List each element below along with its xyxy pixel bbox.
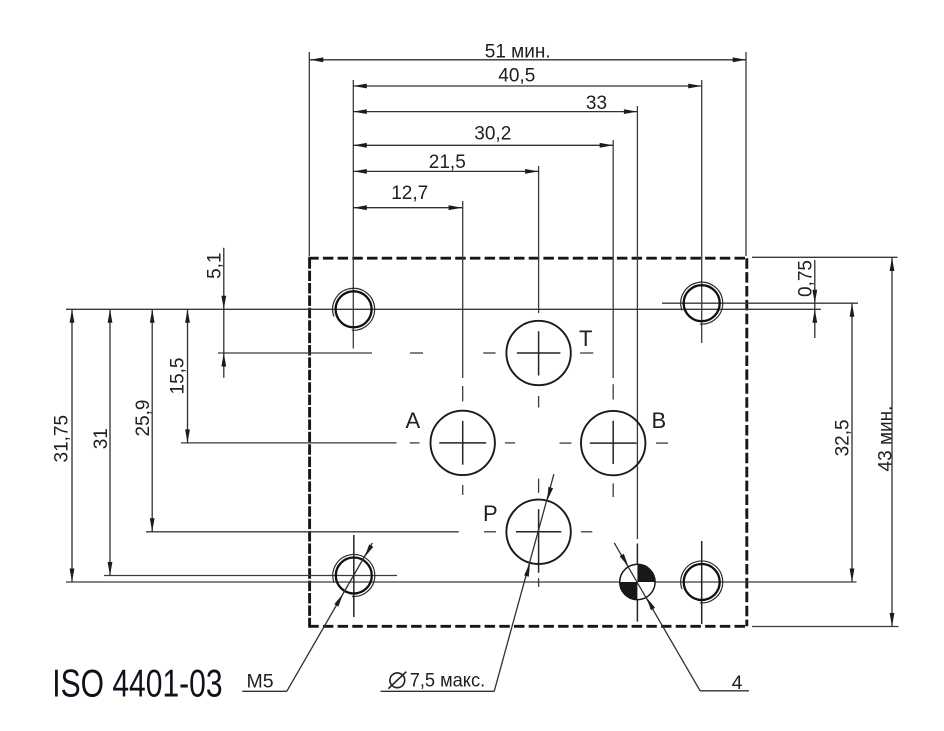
port T circle <box>506 321 570 385</box>
svg-text:43 мин.: 43 мин. <box>875 406 896 472</box>
svg-text:5,1: 5,1 <box>205 252 226 278</box>
T-P axis dash 2 <box>538 479 540 493</box>
extension line through T/P ports x=538.6 <box>538 166 540 313</box>
B axis dash below <box>612 483 614 497</box>
port A circle <box>431 411 495 475</box>
B axis dash above <box>612 384 614 399</box>
leader M5 to bottom-left hole <box>287 543 373 691</box>
axis line through bottom-right hole and datum y=582 <box>66 581 857 583</box>
datum crosshair vertical <box>636 544 638 622</box>
A-B axis left segment <box>181 442 397 444</box>
dimension 5,1 (arrows outside) <box>223 248 225 378</box>
axis line through bottom-left hole y=575.5 <box>104 575 397 577</box>
port B circle <box>581 411 645 475</box>
extension line left plate corner (51) <box>308 52 310 256</box>
B port crosshair vertical <box>612 421 614 464</box>
dimension 12,7 <box>353 207 462 209</box>
leader diameter 7,5 to port P <box>494 474 554 691</box>
fixing hole M5 top-right <box>684 285 720 321</box>
B axis dash left <box>560 442 572 444</box>
T port axis left segment <box>218 352 372 354</box>
label diameter 7,5 max <box>390 673 405 688</box>
dimension 15,5 <box>187 309 189 443</box>
P port crosshair vertical <box>538 509 540 573</box>
dimension 0,75 (arrows outside) <box>814 260 816 338</box>
A port crosshair vertical <box>462 421 464 465</box>
A axis dash below <box>462 485 464 495</box>
P axis dash right <box>581 531 592 533</box>
T-P axis dash 1 <box>538 396 540 408</box>
extension line through A port x=462.7 <box>462 201 464 378</box>
A port crosshair horizontal <box>439 442 486 444</box>
dimension 31 <box>109 309 111 575</box>
svg-text:A: A <box>406 408 421 433</box>
dimension 30,2 <box>353 144 613 146</box>
svg-text:31,75: 31,75 <box>52 415 73 463</box>
P axis left segment <box>146 531 459 533</box>
T port crosshair horizontal <box>517 352 561 354</box>
extension of plate top edge to right <box>752 256 898 258</box>
extension line through left holes x=353.3 <box>352 80 354 349</box>
P port crosshair horizontal <box>516 531 561 533</box>
B port crosshair horizontal <box>590 442 637 444</box>
fixing hole M5 bottom-left <box>336 558 372 594</box>
valve mounting plate outline (dashed) <box>308 258 748 626</box>
dimension 33 <box>353 111 637 113</box>
svg-text:40,5: 40,5 <box>498 65 535 86</box>
svg-text:15,5: 15,5 <box>167 358 188 395</box>
leader 4 to datum hole <box>614 543 700 691</box>
bottom-right hole crosshair vertical <box>701 541 703 624</box>
svg-text:0,75: 0,75 <box>796 260 817 297</box>
dimension 31,75 <box>71 309 73 582</box>
extension line right plate corner (51) <box>745 52 747 256</box>
svg-text:33: 33 <box>586 93 607 114</box>
dimension 43 min (plate height) <box>891 258 893 627</box>
dimension 25,9 <box>151 309 153 532</box>
A axis dash right <box>505 442 515 444</box>
fixing hole M5 bottom-right <box>684 564 720 600</box>
bottom-left hole crosshair vertical <box>353 535 355 617</box>
svg-text:7,5 макс.: 7,5 макс. <box>410 670 486 692</box>
svg-text:ISO 4401-03: ISO 4401-03 <box>52 663 222 705</box>
svg-text:M5: M5 <box>247 671 274 693</box>
T axis dash 3 <box>580 352 593 354</box>
extension of plate bottom edge to right <box>752 626 899 628</box>
dimension 40,5 <box>353 85 701 87</box>
T axis dash 2 <box>483 352 495 354</box>
axis line through top-right hole y=303.2 <box>662 302 858 304</box>
B axis dash right <box>656 442 668 444</box>
svg-text:P: P <box>483 501 498 526</box>
T axis dash 1 <box>410 352 423 354</box>
svg-text:32,5: 32,5 <box>833 419 854 456</box>
dimension 51 min (plate width) <box>310 59 746 61</box>
extension line through B port x=613.2 <box>612 140 614 378</box>
svg-text:30,2: 30,2 <box>474 123 511 144</box>
extension line through right holes x=701.7 <box>701 80 703 343</box>
svg-text:B: B <box>652 408 667 433</box>
datum target circle (locating pin hole 4) <box>620 564 655 599</box>
axis line through top-left hole y=309.3 <box>66 308 821 310</box>
svg-text:T: T <box>579 326 592 351</box>
svg-text:21,5: 21,5 <box>429 152 466 173</box>
dimension 32,5 <box>851 303 853 582</box>
A axis dash left <box>410 442 420 444</box>
T port crosshair vertical <box>538 331 540 375</box>
A axis dash above <box>462 386 464 401</box>
svg-text:25,9: 25,9 <box>133 400 154 437</box>
fixing hole M5 top-left <box>336 291 372 327</box>
P axis dash left <box>484 531 496 533</box>
svg-text:51 мин.: 51 мин. <box>485 41 551 62</box>
svg-text:12,7: 12,7 <box>391 183 428 204</box>
P axis dash below <box>538 578 540 587</box>
dimension 21,5 <box>353 170 538 172</box>
extension line through datum x=637.4 <box>636 106 638 539</box>
svg-text:31: 31 <box>91 428 112 449</box>
port P circle <box>506 500 570 564</box>
